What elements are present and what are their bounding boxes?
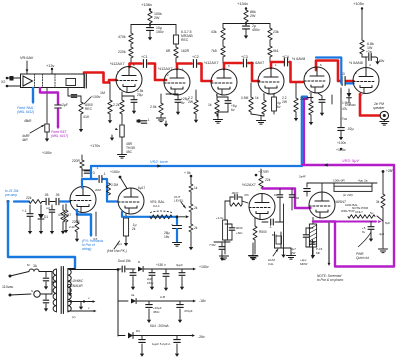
svg-text:150v: 150v (147, 281, 154, 285)
svg-text:D3: D3 (136, 329, 140, 333)
rail3 shunt cap a (141, 336, 143, 340)
rail2 arrow (193, 300, 196, 303)
blue feedback path from T6 (316, 58, 341, 84)
svg-text:.0047: .0047 (231, 191, 239, 195)
node rail 1 (131, 24, 176, 26)
svg-text:+: + (171, 223, 173, 227)
svg-text:2.2k: 2.2k (69, 225, 75, 229)
cathode box resistor V7b (125, 214, 127, 219)
cathode network V1 (121, 92, 123, 100)
svg-text:½ 6AV8: ½ 6AV8 (292, 57, 305, 61)
blue ground loop wire (8, 202, 75, 269)
ground V2 (160, 115, 162, 118)
triode V7a (70, 187, 96, 213)
cathode network V2 (160, 94, 162, 103)
svg-text:4μ0: 4μ0 (379, 232, 384, 236)
svg-text:-18v: -18v (199, 299, 206, 303)
svg-text:.0033: .0033 (235, 226, 243, 230)
triode V7b (118, 188, 144, 214)
svg-text:16v: 16v (164, 235, 170, 239)
svg-text:col: col (46, 206, 50, 210)
rail3 shunt cap b (176, 336, 178, 340)
cathode network V3 (216, 94, 218, 100)
coupling cap .02 to V9 area (262, 221, 268, 223)
cap line filter 1 (45, 272, 47, 278)
grid divider V8 (224, 201, 226, 220)
coupling cap C1 (142, 60, 144, 68)
wire T5 cathode node (307, 97, 313, 99)
ground below 4.6k (46, 132, 48, 135)
svg-text:47k: 47k (342, 107, 348, 111)
ground V8 cathode (249, 255, 258, 257)
svg-text:150v: 150v (156, 30, 164, 34)
svg-text:+ 5k: + 5k (184, 171, 191, 175)
svg-text:½ 6AN8: ½ 6AN8 (349, 61, 363, 65)
svg-text:100k BAL: 100k BAL (345, 203, 358, 207)
resistor 2.2M V7b grid (107, 183, 111, 195)
svg-text:4μu 2a: 4μu 2a (358, 179, 368, 183)
blue feedback into T6 (347, 82, 354, 84)
coupling cap C4 (283, 58, 285, 66)
svg-text:+105v: +105v (353, 1, 364, 6)
ground under 41K (80, 114, 82, 125)
svg-text:3μμF: 3μμF (176, 263, 183, 267)
blue VR2 line (91, 165, 302, 167)
svg-text:2μ1: 2μ1 (117, 242, 122, 246)
resistor box 6.3-7.5 MR2AB (175, 25, 177, 35)
resistor 43k plate T3 (222, 24, 224, 29)
svg-text:+150v: +150v (42, 151, 52, 155)
svg-text:+170v: +170v (90, 144, 100, 148)
resistor 41K (79, 102, 83, 114)
svg-text:(MKL 6417): (MKL 6417) (51, 134, 68, 138)
rail2 shunt cap a (148, 301, 150, 304)
fuse F1 (29, 269, 39, 272)
ground at T6 cap (376, 57, 378, 58)
svg-text:2W: 2W (154, 16, 160, 20)
ground under 1M (109, 114, 111, 117)
svg-text:220k: 220k (300, 97, 307, 101)
svg-text:.05: .05 (44, 193, 49, 197)
secondary mid taps (68, 301, 93, 303)
cap line filter 2 (45, 294, 47, 299)
rail1 shunt cap a (132, 269, 134, 272)
blue wire into V7a (60, 200, 70, 202)
resistor 9k1 plate T4 (269, 40, 271, 46)
blue cathode jog V7a (77, 210, 91, 235)
svg-text:CAL: CAL (268, 262, 274, 266)
svg-text:6v: 6v (362, 230, 366, 234)
NFB network V6 (340, 88, 342, 127)
svg-text:½12AX7: ½12AX7 (110, 62, 125, 66)
svg-text:1k: 1k (208, 103, 212, 107)
svg-text:+100v: +100v (91, 95, 101, 99)
grid resistor 1M V1 (109, 83, 111, 101)
grid stub V7a (69, 201, 72, 203)
svg-text:25μ: 25μ (137, 93, 143, 97)
svg-text:pre amp: pre amp (4, 193, 17, 197)
purple VR3 drop wire (304, 99, 308, 165)
svg-text:23k: 23k (273, 30, 279, 34)
plate caps V8 (279, 189, 281, 194)
svg-text:+28F: +28F (386, 169, 393, 173)
red path T3 plate to T4 (224, 63, 242, 69)
svg-text:.1: .1 (147, 118, 150, 122)
ground V3 (217, 112, 219, 119)
line to ground from 283 (283, 204, 285, 252)
blue cap branch 22u (176, 217, 178, 224)
resistor 458 trim V1 (121, 118, 123, 124)
ground stub left (111, 135, 113, 138)
resistor 162R plate T2 (175, 44, 177, 47)
mains input (9, 275, 12, 278)
svg-text:(in 2W): (in 2W) (343, 193, 353, 197)
output jack to speaker (380, 111, 388, 119)
svg-text:45C: 45C (126, 150, 133, 154)
svg-text:A-B: A-B (160, 295, 165, 299)
capacitor 2u 450v (243, 25, 250, 27)
HV bus vertical (117, 270, 119, 337)
resistor 3k right column (381, 194, 385, 208)
resistor 23k plate T4 (269, 24, 271, 29)
svg-text:wiring): wiring) (82, 247, 91, 251)
svg-text:+150 v: +150 v (156, 263, 166, 267)
rail1 shunt cap d (181, 269, 183, 272)
svg-text:48kR: 48kR (24, 119, 32, 123)
svg-text:+270R: +270R (258, 170, 269, 174)
svg-text:X2: X2 (1, 80, 5, 84)
cathode bypass cap V1 (122, 95, 134, 97)
svg-text:3k: 3k (376, 200, 380, 204)
cap beside screen (306, 227, 313, 229)
resistor 220k plate T1 (130, 44, 132, 47)
rail1 arrow +150 (193, 268, 196, 271)
svg-text:+150v: +150v (110, 170, 120, 174)
svg-text:2k: 2k (132, 227, 136, 231)
svg-text:MF: MF (316, 251, 320, 255)
svg-text:WRL/TOP: WRL/TOP (341, 209, 355, 213)
svg-text:5μ: 5μ (370, 211, 374, 215)
node rail 2 (223, 23, 270, 25)
rail1 shunt cap b (151, 269, 153, 272)
svg-text:9k1: 9k1 (273, 49, 279, 53)
secondary top lead (68, 268, 75, 270)
capacitor 10u 150v (149, 26, 151, 28)
svg-text:470μF: 470μF (184, 309, 193, 313)
svg-text:41K: 41K (83, 115, 90, 119)
svg-text:450v: 450v (153, 310, 160, 314)
svg-text:+C2: +C2 (192, 55, 199, 59)
svg-text:220k: 220k (118, 50, 126, 54)
triode V2 half 12AX7 (164, 69, 190, 95)
svg-text:1N914R: 1N914R (71, 284, 83, 288)
svg-text:6μ17: 6μ17 (138, 186, 145, 190)
resistor 86k 2W (244, 10, 248, 22)
input jack J1 (6, 77, 9, 80)
coupling cap C5 (341, 77, 343, 86)
red path T6 to output jack (360, 94, 380, 116)
blue VR2 drop wire (302, 97, 307, 166)
svg-text:47k: 47k (58, 213, 64, 217)
blue output path V7b (122, 212, 177, 217)
cathode network V5 (310, 93, 312, 101)
svg-text:(Hot cha PK.): (Hot cha PK.) (107, 249, 127, 253)
svg-text:C2-1: C2-1 (153, 204, 160, 208)
pot wiper right (377, 216, 383, 221)
decouple cap .1 (136, 120, 138, 122)
svg-text:6R: 6R (166, 49, 171, 53)
svg-text:22k: 22k (26, 196, 32, 200)
svg-text:1 Meg: 1 Meg (342, 101, 351, 105)
svg-text:2k: 2k (194, 226, 198, 230)
ground right column (382, 222, 384, 249)
svg-text:Quiet ckt.: Quiet ckt. (356, 256, 370, 260)
svg-text:speaker: speaker (373, 106, 385, 110)
svg-text:+2a: +2a (366, 50, 372, 54)
triode V1 half 12AX7 (116, 67, 142, 93)
svg-text:S: S (31, 289, 33, 293)
plate line V9 to OPT (321, 183, 323, 193)
arrow into divider (179, 216, 185, 218)
svg-text:.02: .02 (295, 196, 300, 200)
cap at rail left end (306, 183, 308, 187)
cathode cap V3 (217, 96, 228, 98)
rail1 diode (138, 266, 143, 271)
svg-text:½12AX7: ½12AX7 (242, 183, 256, 187)
svg-text:3v: 3v (181, 101, 185, 105)
rail3 diode (117, 301, 119, 336)
shunt cap 2 (51, 205, 53, 209)
heater ground sym (69, 289, 71, 291)
svg-text:MDW: MDW (300, 262, 307, 266)
purple VR3 line (303, 164, 394, 166)
svg-text:ONLY: ONLY (355, 210, 363, 214)
svg-text:7k5: 7k5 (211, 49, 217, 53)
coupling cap C3 (242, 59, 244, 67)
ground under 10u (149, 31, 151, 35)
svg-text:6v: 6v (277, 105, 281, 109)
svg-text:+13v: +13v (46, 64, 54, 68)
secondary tap ground (80, 302, 82, 305)
svg-text:.01: .01 (273, 193, 278, 197)
triode V8 (249, 194, 275, 220)
red path T2 plate to T3 (177, 64, 192, 70)
resistor 4.6k below box (46, 88, 48, 124)
svg-text:LEVEL: LEVEL (174, 199, 184, 203)
rail2 shunt cap b (179, 301, 181, 304)
svg-text:+C4: +C4 (282, 55, 289, 59)
cathode cap V2 (166, 93, 178, 95)
feedback resistor 600R 2W (334, 186, 372, 191)
svg-text:2k: 2k (194, 206, 198, 210)
shunt diode on input (40, 205, 42, 214)
svg-text:1μμF 5.2μF A: 1μμF 5.2μF A (152, 342, 170, 346)
svg-text:+7oo: +7oo (340, 117, 347, 121)
svg-text:+C1: +C1 (141, 55, 148, 59)
rail1 series cap (118, 268, 121, 270)
triode V6 half 6SN7 (353, 68, 379, 94)
svg-text:162R: 162R (181, 49, 190, 53)
svg-text:43k: 43k (211, 30, 217, 34)
transformer T1 primary (56, 269, 58, 312)
svg-text:-26v: -26v (198, 335, 205, 339)
wire V6 down network (340, 90, 342, 93)
svg-text:470k: 470k (118, 35, 126, 39)
blue VR2 riser (90, 166, 92, 179)
svg-text:+134v: +134v (237, 1, 248, 6)
resistor 100k 2W (148, 11, 152, 23)
cathode cap V5 (317, 93, 322, 97)
svg-text:1M: 1M (100, 91, 105, 95)
svg-text:(MKL 6412): (MKL 6412) (17, 110, 34, 114)
svg-text:+.1: +.1 (22, 209, 27, 213)
svg-text:1k: 1k (194, 186, 198, 190)
svg-text:4kR: 4kR (22, 138, 28, 142)
resistor 22k series (29, 200, 42, 204)
svg-text:2μF: 2μF (62, 103, 68, 107)
rail2 diode (117, 270, 119, 302)
svg-text:REC: REC (181, 38, 189, 42)
capacitor at T6 plate (366, 56, 368, 58)
svg-text:VR3: 5μV: VR3: 5μV (342, 158, 359, 163)
coupling cap .1 blue path (98, 176, 100, 183)
switch S1 (34, 291, 40, 297)
cathode network V4 (263, 94, 265, 100)
svg-text:+136v: +136v (141, 2, 152, 7)
svg-text:R500: R500 (259, 230, 267, 234)
red path T5 plate to T6 (316, 61, 341, 82)
resistor 470k plate T1 (130, 25, 132, 34)
ground V1 chain (121, 137, 123, 154)
svg-text:6v: 6v (231, 108, 235, 112)
svg-text:2a4F: 2a4F (299, 175, 306, 179)
svg-text:2.5k: 2.5k (150, 105, 157, 109)
blue note: fixed MKL 6412 (32, 88, 34, 102)
svg-text:no-OHMIC: no-OHMIC (68, 279, 84, 283)
svg-text:7.5M: 7.5M (209, 243, 216, 247)
triode V3 half 12AX7 (211, 69, 237, 95)
hum cap left (221, 242, 223, 246)
resistor 6.8k 1W (360, 40, 364, 54)
svg-text:+150v: +150v (199, 265, 209, 269)
purple down leg (335, 166, 394, 267)
diode 1N914 under T6 (348, 89, 350, 93)
capacitor on purple branch (55, 104, 62, 106)
cathode box resistor V4 (268, 93, 274, 95)
hum ground mid (252, 243, 254, 255)
svg-text:5μF: 5μF (385, 221, 390, 225)
svg-text:.1: .1 (103, 172, 106, 176)
ground under 2u (245, 29, 247, 33)
svg-text:½ 6AV7: ½ 6AV7 (251, 61, 264, 65)
svg-text:.05: .05 (55, 193, 60, 197)
svg-text:VR:6AV: VR:6AV (20, 56, 34, 60)
resistor 7k5 plate T3 (222, 40, 224, 46)
svg-text:.1: .1 (269, 225, 272, 229)
svg-text:3a: 3a (131, 293, 135, 297)
blue input line tremolo channel (7, 200, 10, 203)
svg-text:A: A (305, 71, 307, 75)
svg-text:47k: 47k (244, 193, 249, 197)
svg-text:REC: REC (85, 107, 93, 111)
cap 5u 6v (370, 222, 372, 227)
pot presence (348, 215, 375, 219)
svg-text:+1.6v: +1.6v (216, 216, 224, 220)
pot arrow 41K (84, 97, 91, 104)
svg-text:2.2k: 2.2k (113, 103, 120, 107)
shunt resistor 4k7 (62, 205, 64, 210)
svg-text:20M: 20M (95, 188, 101, 192)
svg-text:5U4 : 200mA: 5U4 : 200mA (150, 324, 169, 328)
svg-text:(c): (c) (72, 315, 76, 319)
grid RC network V8 (225, 200, 230, 202)
svg-text:½12AX7: ½12AX7 (158, 67, 173, 71)
rail1 shunt cap c (165, 269, 167, 273)
svg-text:+100v: +100v (337, 141, 346, 145)
svg-text:2W: 2W (250, 14, 256, 18)
svg-text:2W: 2W (291, 251, 296, 255)
ground V8 divider (220, 255, 229, 257)
cap at V7a supply node (82, 169, 90, 171)
triode V5 half 6AV6 (304, 67, 330, 93)
svg-text:22k: 22k (265, 178, 271, 182)
grid leak V7a (65, 204, 67, 210)
svg-text:VR2: tone: VR2: tone (150, 159, 169, 164)
svg-text:BAL: BAL (272, 233, 278, 237)
series cap .1a (45, 198, 47, 205)
svg-text:Dual 15k: Dual 15k (118, 259, 131, 263)
purple wire to cap (40, 88, 58, 104)
cathode V8 (254, 218, 256, 226)
curve annotation (358, 232, 371, 247)
shunt cap on input (29, 205, 31, 213)
svg-text:1k: 1k (255, 96, 259, 100)
svg-text:2W: 2W (188, 100, 194, 104)
svg-text:+60v: +60v (236, 231, 243, 235)
red path input to T1 (84, 73, 117, 83)
svg-text:60v: 60v (379, 59, 385, 63)
components under V5/V6 (331, 95, 333, 104)
triode V9 half 6SN7 (309, 192, 335, 218)
svg-text:0.5M: 0.5M (241, 96, 249, 100)
coupling cap C2 (192, 60, 194, 68)
svg-text:+C3: +C3 (241, 55, 248, 59)
svg-text:D1: D1 (44, 215, 48, 219)
primary leads (51, 272, 53, 295)
input buffer box (21, 74, 85, 88)
grid resistor V5 (295, 83, 297, 98)
ground V9 (312, 247, 314, 252)
hum bal pot (274, 232, 276, 248)
transformer core (60, 267, 62, 314)
svg-text:450v: 450v (252, 28, 260, 32)
svg-text:100k-0R: 100k-0R (333, 179, 345, 183)
resistor 22k plate V8 (259, 176, 263, 188)
purple output path V9 (313, 220, 335, 222)
cap .0033 (225, 223, 232, 225)
dual 15k pot arrow (114, 241, 120, 249)
svg-text:2.2M: 2.2M (111, 183, 118, 187)
node A500 feed (67, 88, 69, 97)
screen box resistor V9 (312, 218, 314, 225)
cathode resistor V7a (76, 214, 78, 222)
rail3 arrow (192, 334, 195, 337)
series cap .1b (55, 198, 57, 205)
transformer T1 secondary (67, 269, 69, 312)
svg-text:.02μ: .02μ (347, 127, 354, 131)
wire stub x96 (95, 212, 97, 236)
triode V4 half 12AX7 (258, 68, 284, 94)
